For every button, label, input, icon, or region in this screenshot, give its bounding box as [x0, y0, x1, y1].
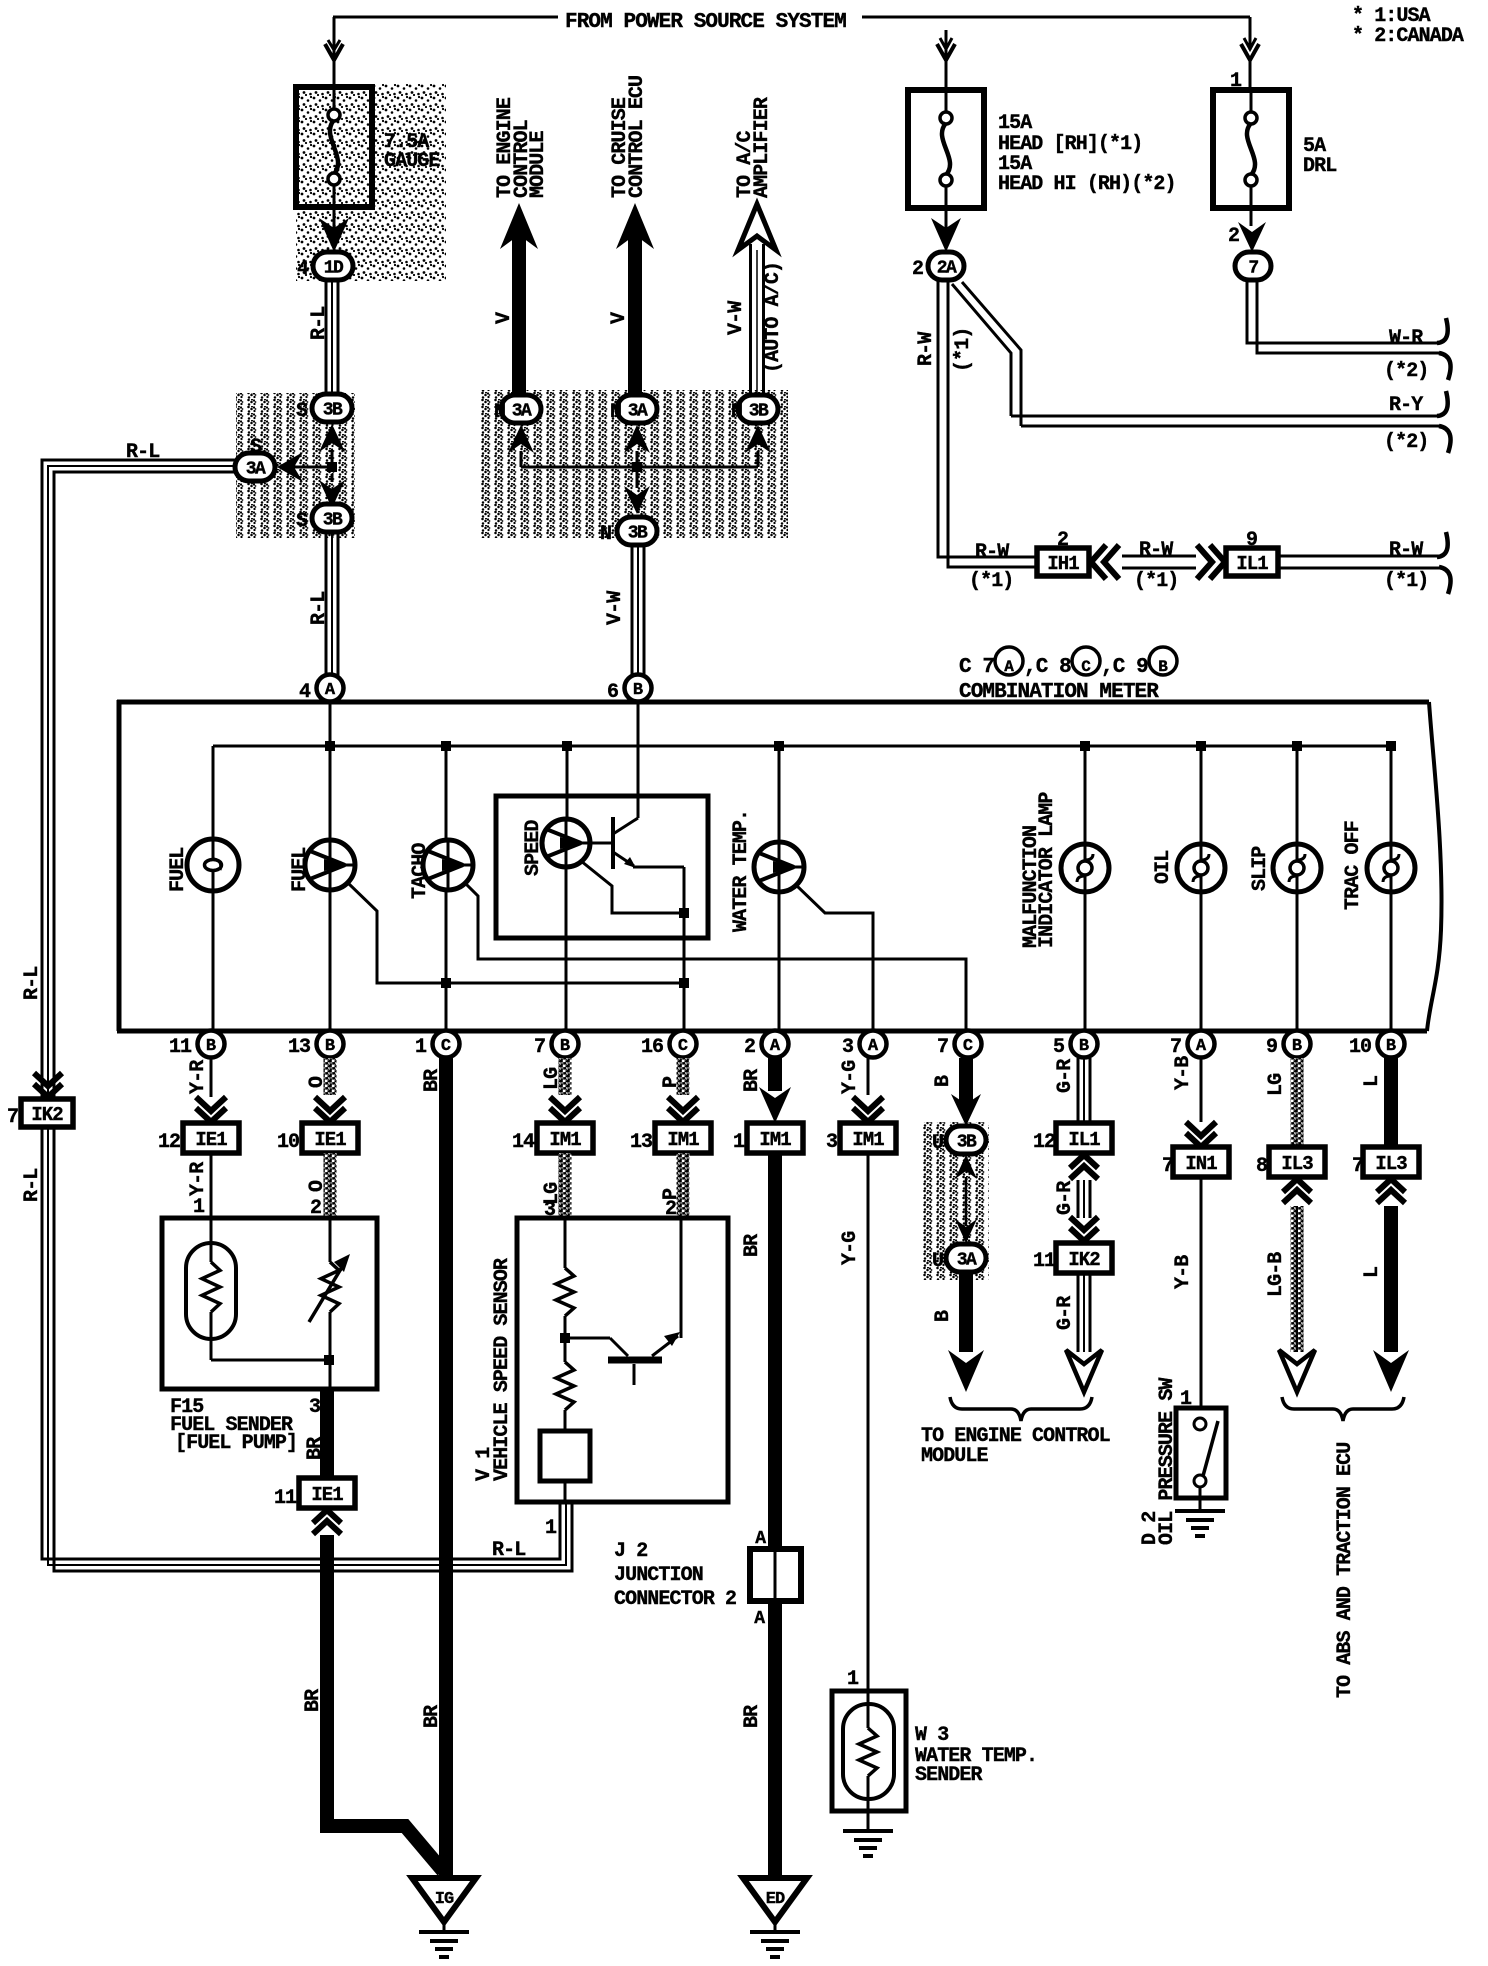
svg-text:Y-R: Y-R	[187, 1060, 210, 1094]
svg-text:R-Y: R-Y	[1389, 394, 1423, 417]
svg-text:3A: 3A	[512, 402, 532, 422]
svg-text:N: N	[494, 401, 505, 424]
svg-text:(*2): (*2)	[1384, 431, 1428, 454]
svg-text:N: N	[600, 523, 611, 546]
svg-text:R-W: R-W	[1139, 539, 1173, 562]
svg-text:U: U	[932, 1250, 943, 1273]
svg-text:GAUGE: GAUGE	[384, 150, 440, 173]
svg-text:IM1: IM1	[759, 1129, 791, 1151]
svg-text:A: A	[325, 681, 336, 700]
svg-text:1: 1	[415, 1036, 427, 1059]
svg-text:3B: 3B	[323, 511, 343, 531]
svg-text:3: 3	[309, 1396, 320, 1419]
svg-text:IN1: IN1	[1185, 1153, 1217, 1175]
svg-text:R-W: R-W	[1389, 539, 1423, 562]
svg-text:Y-G: Y-G	[839, 1231, 862, 1265]
svg-text:4: 4	[297, 258, 309, 281]
svg-text:TO ABS AND TRACTION ECU: TO ABS AND TRACTION ECU	[1334, 1443, 1357, 1698]
svg-text:R-L: R-L	[492, 1539, 525, 1562]
svg-text:IE1: IE1	[195, 1129, 227, 1151]
svg-text:N: N	[731, 401, 742, 424]
svg-text:OIL PRESSURE SW: OIL PRESSURE SW	[1156, 1378, 1179, 1545]
svg-text:2: 2	[912, 258, 923, 281]
svg-text:A: A	[868, 1037, 879, 1056]
svg-text:SPEED: SPEED	[522, 820, 545, 876]
svg-text:L: L	[1361, 1267, 1384, 1278]
svg-text:3A: 3A	[628, 402, 648, 422]
svg-text:10: 10	[277, 1131, 299, 1154]
svg-text:IK2: IK2	[31, 1104, 63, 1126]
svg-text:(AUTO A/C): (AUTO A/C)	[762, 262, 785, 373]
svg-text:Y-B: Y-B	[1172, 1255, 1195, 1289]
svg-text:WATER TEMP.: WATER TEMP.	[730, 810, 753, 932]
svg-text:1D: 1D	[324, 259, 344, 279]
svg-text:B: B	[1386, 1037, 1396, 1056]
svg-text:2: 2	[1228, 225, 1239, 248]
svg-text:V: V	[608, 312, 631, 324]
svg-text:INDICATOR LAMP: INDICATOR LAMP	[1036, 792, 1059, 948]
svg-text:B: B	[932, 1075, 955, 1087]
svg-text:B: B	[1292, 1037, 1302, 1056]
svg-text:2A: 2A	[937, 259, 957, 279]
svg-text:7: 7	[937, 1036, 948, 1059]
svg-text:12: 12	[158, 1131, 180, 1154]
svg-text:11: 11	[274, 1487, 297, 1510]
svg-text:IL1: IL1	[1236, 553, 1268, 575]
svg-text:1: 1	[733, 1131, 745, 1154]
svg-text:SLIP: SLIP	[1249, 846, 1272, 891]
svg-text:R-L: R-L	[21, 967, 44, 1000]
svg-text:3A: 3A	[246, 460, 266, 480]
svg-text:B: B	[1079, 1037, 1089, 1056]
svg-text:4: 4	[299, 681, 311, 704]
svg-text:TACHO: TACHO	[409, 843, 432, 899]
svg-text:11: 11	[1033, 1250, 1056, 1273]
svg-text:FUEL: FUEL	[289, 848, 312, 892]
svg-text:3B: 3B	[749, 402, 769, 422]
svg-text:G-R: G-R	[1054, 1059, 1077, 1093]
svg-text:13: 13	[630, 1131, 652, 1154]
svg-text:IE1: IE1	[314, 1129, 346, 1151]
svg-text:BR: BR	[741, 1234, 764, 1257]
svg-text:OIL: OIL	[1152, 851, 1175, 884]
svg-text:(*1): (*1)	[952, 328, 975, 372]
svg-text:C: C	[441, 1037, 451, 1056]
svg-text:9: 9	[1266, 1036, 1277, 1059]
svg-text:J 2: J 2	[614, 1540, 647, 1563]
svg-text:N: N	[610, 401, 621, 424]
svg-text:7: 7	[1248, 259, 1258, 279]
svg-text:W 3: W 3	[915, 1724, 948, 1747]
svg-text:O: O	[306, 1076, 329, 1088]
svg-text:A: A	[754, 1609, 765, 1629]
svg-text:R-W: R-W	[915, 332, 938, 366]
svg-text:,C 8: ,C 8	[1024, 656, 1071, 679]
svg-text:16: 16	[641, 1036, 663, 1059]
svg-text:SENDER: SENDER	[915, 1764, 983, 1787]
svg-text:MODULE: MODULE	[527, 130, 550, 198]
svg-text:R-L: R-L	[308, 307, 331, 340]
svg-text:HEAD HI (RH)(*2): HEAD HI (RH)(*2)	[998, 173, 1176, 196]
svg-text:DRL: DRL	[1303, 155, 1336, 178]
svg-text:B: B	[206, 1037, 216, 1056]
svg-text:3B: 3B	[628, 524, 648, 544]
svg-text:IE1: IE1	[311, 1484, 343, 1506]
svg-text:P: P	[660, 1076, 683, 1088]
svg-text:3A: 3A	[957, 1251, 977, 1271]
svg-text:FUEL: FUEL	[167, 848, 190, 892]
svg-text:B: B	[325, 1037, 335, 1056]
svg-text:ED: ED	[766, 1890, 785, 1909]
svg-text:BR: BR	[741, 1705, 764, 1728]
svg-text:3B: 3B	[323, 401, 343, 421]
svg-text:1: 1	[847, 1668, 859, 1691]
svg-text:IG: IG	[435, 1890, 454, 1909]
svg-text:IM1: IM1	[852, 1129, 884, 1151]
svg-text:2: 2	[744, 1036, 755, 1059]
svg-text:S: S	[296, 510, 308, 533]
svg-text:12: 12	[1033, 1131, 1055, 1154]
svg-text:G-R: G-R	[1054, 1296, 1077, 1330]
svg-text:11: 11	[169, 1036, 192, 1059]
svg-text:VEHICLE SPEED SENSOR: VEHICLE SPEED SENSOR	[491, 1258, 514, 1481]
svg-text:S: S	[250, 436, 262, 459]
svg-text:(*1): (*1)	[1384, 570, 1428, 593]
svg-text:A: A	[770, 1037, 781, 1056]
svg-text:C: C	[963, 1037, 973, 1056]
svg-text:V: V	[493, 312, 516, 324]
svg-text:IH1: IH1	[1047, 553, 1079, 575]
svg-text:FROM POWER SOURCE SYSTEM: FROM POWER SOURCE SYSTEM	[565, 11, 846, 34]
svg-text:BR: BR	[421, 1069, 444, 1092]
svg-text:,C 9: ,C 9	[1101, 656, 1148, 679]
svg-text:BR: BR	[302, 1689, 325, 1712]
svg-text:14: 14	[512, 1131, 535, 1154]
svg-text:* 2:CANADA: * 2:CANADA	[1352, 25, 1464, 48]
svg-text:LG: LG	[541, 1067, 564, 1090]
svg-text:3B: 3B	[957, 1133, 977, 1153]
svg-text:10: 10	[1349, 1036, 1371, 1059]
svg-text:Y-B: Y-B	[1172, 1056, 1195, 1090]
svg-text:A: A	[1004, 658, 1014, 676]
svg-text:O: O	[306, 1180, 329, 1192]
svg-text:[FUEL PUMP]: [FUEL PUMP]	[175, 1432, 297, 1455]
svg-text:W-R: W-R	[1389, 327, 1423, 350]
svg-text:BR: BR	[421, 1705, 444, 1728]
svg-text:IM1: IM1	[549, 1129, 581, 1151]
svg-text:B: B	[1158, 658, 1168, 676]
svg-text:(*1): (*1)	[969, 570, 1013, 593]
svg-text:A: A	[1196, 1037, 1207, 1056]
svg-text:C: C	[678, 1037, 688, 1056]
svg-text:MODULE: MODULE	[921, 1445, 989, 1468]
svg-text:TRAC OFF: TRAC OFF	[1342, 821, 1365, 910]
svg-text:AMPLIFIER: AMPLIFIER	[751, 97, 774, 198]
svg-text:LG: LG	[1265, 1073, 1288, 1096]
svg-text:13: 13	[288, 1036, 310, 1059]
svg-text:7: 7	[534, 1036, 545, 1059]
svg-text:IL3: IL3	[1375, 1153, 1407, 1175]
svg-text:(*2): (*2)	[1384, 360, 1428, 383]
svg-text:V-W: V-W	[604, 591, 627, 625]
svg-text:V-W: V-W	[725, 301, 748, 335]
svg-text:BR: BR	[304, 1437, 327, 1460]
svg-text:U: U	[932, 1132, 943, 1155]
svg-text:3: 3	[826, 1131, 837, 1154]
svg-text:C: C	[1081, 658, 1091, 676]
svg-text:IM1: IM1	[667, 1129, 699, 1151]
svg-text:CONNECTOR 2: CONNECTOR 2	[614, 1588, 736, 1611]
svg-text:G-R: G-R	[1054, 1181, 1077, 1215]
svg-text:B: B	[633, 681, 643, 700]
svg-text:IK2: IK2	[1068, 1249, 1100, 1271]
svg-text:JUNCTION: JUNCTION	[614, 1564, 703, 1587]
svg-text:IL1: IL1	[1068, 1129, 1100, 1151]
svg-text:6: 6	[607, 681, 618, 704]
svg-text:15A: 15A	[998, 112, 1032, 135]
svg-text:Y-G: Y-G	[839, 1060, 862, 1094]
svg-text:R-L: R-L	[21, 1169, 44, 1202]
svg-text:R-L: R-L	[308, 592, 331, 625]
svg-text:3: 3	[842, 1036, 853, 1059]
svg-text:B: B	[932, 1310, 955, 1322]
svg-text:R-W: R-W	[975, 541, 1009, 564]
svg-text:CONTROL ECU: CONTROL ECU	[626, 76, 649, 198]
svg-text:IL3: IL3	[1281, 1153, 1313, 1175]
svg-text:Y-R: Y-R	[187, 1162, 210, 1196]
svg-text:8: 8	[1256, 1155, 1267, 1178]
svg-text:L: L	[1361, 1076, 1384, 1087]
svg-text:C 7: C 7	[959, 656, 994, 679]
svg-text:7: 7	[1170, 1036, 1181, 1059]
svg-text:7: 7	[7, 1106, 18, 1129]
svg-text:1: 1	[545, 1517, 557, 1540]
svg-text:S: S	[296, 400, 308, 423]
svg-text:5: 5	[1053, 1036, 1064, 1059]
svg-text:(*1): (*1)	[1134, 570, 1178, 593]
svg-text:LG-B: LG-B	[1265, 1252, 1288, 1297]
svg-text:B: B	[560, 1037, 570, 1056]
